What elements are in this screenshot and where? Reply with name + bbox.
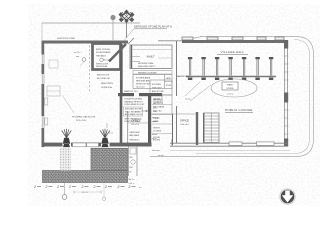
svg-text:EXIST STRONG: EXIST STRONG <box>96 49 111 51</box>
svg-text:PIANO: PIANO <box>227 84 234 87</box>
svg-text:8.0 x 7.6: 8.0 x 7.6 <box>132 124 139 126</box>
svg-text:xxx xxxx: xxx xxxx <box>152 150 160 152</box>
svg-text:OFFICE: OFFICE <box>132 119 141 122</box>
svg-text:REFIXED AS: REFIXED AS <box>96 65 108 68</box>
svg-text:SHELVING UNITS: SHELVING UNITS <box>138 66 155 68</box>
svg-text:RW: RW <box>130 167 133 169</box>
svg-text:BOILER FLUE AND: BOILER FLUE AND <box>125 98 143 101</box>
svg-text:WARDROBE: WARDROBE <box>176 75 189 78</box>
svg-text:RUN UNDER FLOOR: RUN UNDER FLOOR <box>125 104 145 106</box>
svg-text:x 6.0 x: x 6.0 x <box>227 94 233 96</box>
svg-text:NEW STEPS: NEW STEPS <box>101 83 113 85</box>
svg-text:KITCHEN AREA: KITCHEN AREA <box>136 77 151 80</box>
svg-text:2: 2 <box>117 185 120 189</box>
svg-text:2: 2 <box>128 185 131 189</box>
svg-text:2: 2 <box>68 185 71 189</box>
svg-text:VAULT: VAULT <box>147 55 155 59</box>
svg-text:12'6 x 20'0: 12'6 x 20'0 <box>76 120 87 122</box>
svg-text:10.6 x 8.0: 10.6 x 8.0 <box>180 124 188 126</box>
svg-text:CLOAKS: CLOAKS <box>153 100 162 103</box>
svg-text:xxx: xxx <box>76 56 79 58</box>
svg-text:2: 2 <box>45 185 48 189</box>
svg-text:BLOCKED UP: BLOCKED UP <box>97 78 111 80</box>
svg-text:SHELVES x: SHELVES x <box>130 140 140 142</box>
svg-text:KITCHEN: KITCHEN <box>152 84 161 86</box>
svg-text:12.0 x 8.0: 12.0 x 8.0 <box>103 59 111 61</box>
svg-text:2: 2 <box>56 185 59 189</box>
svg-text:STEEL DOOR: STEEL DOOR <box>96 63 109 65</box>
svg-text:10' - 0": 10' - 0" <box>82 192 88 194</box>
svg-text:2: 2 <box>104 185 107 189</box>
svg-text:xx xxx: xx xxx <box>152 121 158 123</box>
svg-text:2: 2 <box>93 185 96 189</box>
svg-text:FLAT ROOF OVER: FLAT ROOF OVER <box>57 37 75 40</box>
svg-text:STOR: STOR <box>166 85 172 87</box>
svg-text:HEATING PIPES TO: HEATING PIPES TO <box>125 100 144 103</box>
svg-text:NEW SINK AND: NEW SINK AND <box>136 80 150 83</box>
svg-text:AND STORE: AND STORE <box>152 90 164 93</box>
svg-text:LADIES: LADIES <box>153 98 161 101</box>
svg-text:CLOAKS: CLOAKS <box>153 129 162 132</box>
svg-text:PUBLIC LOUNGE: PUBLIC LOUNGE <box>225 108 252 112</box>
svg-text:2: 2 <box>81 185 84 189</box>
svg-text:LARD: LARD <box>166 77 172 80</box>
svg-text:x x: x x <box>139 187 141 189</box>
svg-text:OFFICE: OFFICE <box>180 119 189 122</box>
svg-text:THE VAULT: THE VAULT <box>96 55 107 58</box>
svg-text:2: 2 <box>33 185 36 189</box>
svg-text:MODERN STEEL: MODERN STEEL <box>138 63 155 65</box>
svg-text:W.C.: W.C. <box>153 108 158 110</box>
svg-text:STORE: STORE <box>226 88 234 90</box>
svg-text:EXIST DOOR: EXIST DOOR <box>97 75 110 77</box>
svg-text:NEW DESK: NEW DESK <box>130 132 141 134</box>
svg-text:x 14 x: x 14 x <box>129 183 134 185</box>
svg-text:SERVING COUNTER: SERVING COUNTER <box>138 72 157 74</box>
svg-text:RAMP UP 1:12: RAMP UP 1:12 <box>124 90 138 93</box>
svg-text:POLISHED OAK FLOOR: POLISHED OAK FLOOR <box>72 116 96 119</box>
svg-text:xxxx xx: xxxx xx <box>152 117 159 119</box>
svg-text:x 2 x: x 2 x <box>109 133 113 135</box>
svg-text:10.0 x 6.0: 10.0 x 6.0 <box>136 87 144 89</box>
svg-text:H.B.: H.B. <box>153 111 157 113</box>
svg-text:DETAILED STONE PLAN AT A: DETAILED STONE PLAN AT A <box>134 25 172 29</box>
svg-text:AND SAFE: AND SAFE <box>130 134 140 137</box>
svg-text:xxxxx: xxxxx <box>152 134 157 136</box>
svg-text:No 2 x: No 2 x <box>129 179 135 181</box>
svg-text:xx xxx: xx xxx <box>185 99 191 101</box>
svg-text:xx xxx: xx xxx <box>158 155 164 157</box>
svg-text:DOWN 3 No: DOWN 3 No <box>101 87 113 89</box>
svg-text:xx 12 x: xx 12 x <box>74 52 80 54</box>
svg-text:EXISTING STONE: EXISTING STONE <box>125 109 142 111</box>
svg-text:xx xx: xx xx <box>152 138 157 140</box>
svg-text:ROOM RETAIND: ROOM RETAIND <box>96 51 111 54</box>
svg-text:VILLAGE HALL: VILLAGE HALL <box>221 50 245 54</box>
svg-text:FW: FW <box>130 157 133 159</box>
svg-text:GENTS: GENTS <box>153 128 161 130</box>
svg-text:WORKTOP UNIT: WORKTOP UNIT <box>136 84 151 86</box>
